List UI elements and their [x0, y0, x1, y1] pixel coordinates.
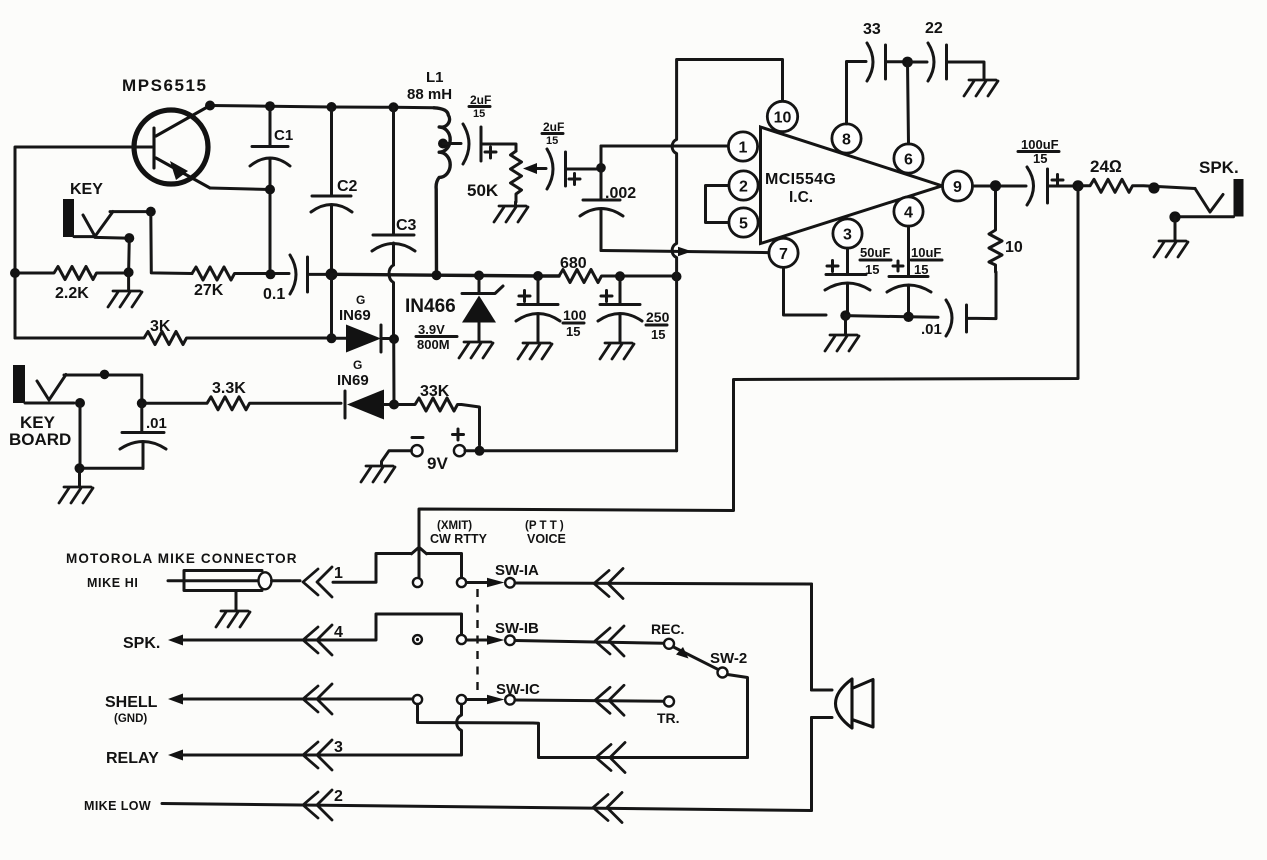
svg-text:250: 250	[646, 309, 670, 325]
capacitor 22	[908, 20, 984, 81]
svg-text:VOICE: VOICE	[527, 532, 566, 546]
battery 9V	[382, 429, 475, 473]
node rail L1	[432, 270, 442, 280]
svg-text:15: 15	[1033, 151, 1047, 166]
svg-text:15: 15	[473, 108, 485, 120]
svg-text:9: 9	[953, 179, 962, 196]
chevron SW-1B	[595, 626, 624, 656]
wire relay row	[181, 704, 462, 755]
svg-text:MIKE LOW: MIKE LOW	[84, 799, 151, 813]
capacitor .01	[921, 272, 996, 338]
op-amp U1 MC1554G triangle	[761, 127, 943, 244]
pin 8	[832, 124, 861, 153]
node rail C2	[326, 268, 338, 280]
svg-text:4: 4	[334, 624, 343, 641]
wire SW-1B to REC	[515, 641, 664, 644]
wire pin8 up	[847, 62, 867, 124]
SW-2 wiper arm	[674, 647, 719, 670]
loudspeaker	[812, 679, 874, 728]
resistor 10	[989, 186, 1023, 272]
ground 100uF	[518, 343, 552, 359]
svg-text:MOTOROLA MIKE CONNECTOR: MOTOROLA MIKE CONNECTOR	[66, 551, 297, 566]
wire C1 to rail	[269, 190, 272, 275]
wire key tip down to rail	[151, 212, 192, 274]
transistor Q1 MPS6515	[134, 106, 210, 189]
arrow SW-1B	[467, 635, 505, 645]
svg-text:15: 15	[651, 327, 665, 342]
chevron SW-1A	[594, 569, 623, 599]
wire gnd rail	[846, 316, 939, 318]
capacitor .002	[580, 168, 636, 251]
svg-text:2uF: 2uF	[543, 120, 564, 134]
pin 10	[767, 101, 797, 131]
wire base to left vertical	[15, 147, 152, 338]
svg-text:3.3K: 3.3K	[212, 380, 246, 397]
wire SW-1C to TR	[515, 700, 664, 701]
svg-text:2uF: 2uF	[470, 93, 491, 107]
wire pin2-pin5 strap	[706, 186, 730, 223]
wire pin7 down	[784, 268, 827, 316]
svg-text:(XMIT): (XMIT)	[437, 520, 472, 532]
svg-text:22: 22	[925, 20, 943, 37]
pin 4	[894, 197, 923, 226]
resistor 680	[559, 255, 677, 283]
node emitter-C1	[265, 185, 275, 195]
svg-text:0.1: 0.1	[263, 286, 285, 303]
pin 5	[729, 208, 758, 237]
svg-text:5: 5	[739, 216, 748, 233]
ground battery	[361, 466, 395, 482]
svg-text:50K: 50K	[467, 181, 499, 200]
svg-text:15: 15	[865, 262, 879, 277]
wire supply vertical with hops	[672, 60, 782, 451]
potentiometer 50K	[467, 151, 546, 202]
svg-text:SW-IC: SW-IC	[496, 681, 540, 698]
wire mike hi to switch	[333, 554, 411, 583]
contact SW-1C	[505, 695, 515, 705]
arrow shell	[168, 694, 183, 705]
pin 7	[769, 238, 798, 267]
chevron spk left	[303, 625, 332, 655]
wire shell contact jog	[418, 704, 748, 757]
capacitor 33	[863, 21, 903, 81]
svg-text:SPK.: SPK.	[123, 635, 160, 652]
pin 1	[728, 132, 757, 161]
wire tap to cap	[443, 142, 461, 145]
svg-text:2: 2	[334, 788, 343, 805]
svg-text:L1: L1	[426, 69, 444, 86]
contact SW-2	[718, 668, 728, 678]
resistor 3K	[15, 318, 332, 345]
pin 3	[833, 219, 862, 248]
contact voice B	[457, 635, 466, 644]
node battery plus	[475, 446, 485, 456]
svg-text:33: 33	[863, 21, 881, 38]
node rail zener	[474, 271, 484, 281]
svg-text:4: 4	[904, 205, 913, 222]
zener diode 1N466	[405, 276, 503, 353]
node 3K C2	[327, 333, 337, 343]
node top C1	[265, 101, 275, 111]
capacitor 100uF/15	[1018, 137, 1078, 205]
svg-text:SW-IB: SW-IB	[495, 620, 539, 637]
node collector	[205, 101, 215, 111]
svg-text:9V: 9V	[427, 454, 448, 473]
svg-text:88 mH: 88 mH	[407, 86, 452, 103]
chevron relay right	[596, 743, 625, 773]
wire rail mid	[332, 274, 560, 276]
wire C3 down to diode2 row	[392, 339, 395, 405]
keyboard jack	[9, 365, 142, 449]
svg-text:MIKE HI: MIKE HI	[87, 576, 138, 590]
svg-text:SW-2: SW-2	[710, 650, 747, 667]
wire C3 hop over rail	[389, 265, 394, 338]
capacitor C1	[250, 106, 293, 189]
node keyboard tip	[137, 398, 147, 408]
svg-text:G: G	[353, 358, 362, 372]
resistor 27K	[192, 267, 289, 299]
svg-text:CW RTTY: CW RTTY	[430, 532, 488, 546]
switch SW-2 REC contact	[664, 639, 674, 649]
svg-text:C2: C2	[337, 178, 358, 195]
ground zener	[459, 342, 493, 358]
wire collector top rail	[210, 106, 434, 108]
arrow SW-1A	[467, 578, 505, 588]
node rail-left vertical	[10, 268, 20, 278]
node top C3	[389, 102, 399, 112]
svg-text:10: 10	[1005, 239, 1023, 256]
node rail 100uF	[533, 271, 543, 281]
node L1 tap	[438, 139, 448, 149]
mike connector cylinder	[168, 571, 300, 611]
resistor 33K	[394, 383, 480, 445]
contact SW-1B	[505, 636, 515, 646]
node 33-22	[902, 57, 913, 68]
svg-text:.002: .002	[605, 185, 636, 202]
svg-text:27K: 27K	[194, 282, 224, 299]
svg-text:2.2K: 2.2K	[55, 285, 89, 302]
resistor 3.3K	[146, 380, 341, 410]
capacitor 2uF/15 second	[542, 120, 601, 189]
node 50uF gnd	[840, 310, 850, 320]
pin 6	[894, 144, 923, 173]
capacitor .01 keyboard	[80, 403, 167, 469]
node key sleeve	[124, 233, 134, 243]
svg-text:10: 10	[774, 110, 792, 127]
svg-text:680: 680	[560, 255, 587, 272]
node spk	[1148, 182, 1159, 193]
wire speaker vertical right	[810, 584, 813, 811]
ground mike connector	[216, 611, 250, 627]
svg-text:REC.: REC.	[651, 621, 684, 637]
ground spk	[1154, 217, 1188, 257]
capacitor 50uF/15	[825, 245, 891, 316]
node diode2 33K	[389, 400, 399, 410]
ground 50uF	[825, 316, 859, 351]
chevron SW-1C	[595, 685, 624, 715]
node 2.2K right	[124, 267, 134, 277]
svg-text:50uF: 50uF	[860, 245, 890, 260]
wire sleeve down	[127, 238, 131, 272]
inductor L1	[434, 108, 450, 275]
node key tip	[146, 207, 156, 217]
capacitor 100/15	[516, 276, 587, 342]
capacitor 10uF/15	[887, 226, 942, 317]
svg-text:2: 2	[739, 179, 748, 196]
node rail 250uF	[615, 271, 625, 281]
chevron shell left	[303, 684, 332, 714]
svg-text:15: 15	[546, 135, 558, 147]
svg-text:.01: .01	[921, 321, 942, 338]
chevron mike low left	[303, 790, 332, 820]
chevron relay left	[303, 740, 332, 770]
svg-text:15: 15	[566, 324, 580, 339]
capacitor C2	[311, 107, 358, 274]
svg-text:3K: 3K	[150, 318, 171, 335]
svg-text:IN69: IN69	[337, 372, 369, 389]
svg-text:I.C.: I.C.	[789, 189, 813, 206]
pin 9	[943, 171, 973, 201]
ground key	[108, 272, 142, 307]
svg-text:3.9V: 3.9V	[418, 322, 445, 337]
contact cw-rtty A	[413, 578, 422, 587]
node rail right end	[672, 272, 682, 282]
ground keyboard	[59, 468, 93, 503]
svg-text:KEY: KEY	[70, 181, 103, 198]
wire SW-1A to speaker line	[515, 583, 812, 584]
wire .002 to pin7	[601, 251, 769, 253]
svg-text:100uF: 100uF	[1021, 137, 1059, 152]
node out2	[1072, 180, 1083, 191]
svg-text:24Ω: 24Ω	[1090, 157, 1122, 176]
svg-text:1: 1	[739, 140, 748, 157]
node out	[990, 180, 1001, 191]
contact cw-rtty B	[413, 635, 422, 644]
contact voice C	[457, 695, 466, 704]
svg-text:G: G	[356, 293, 365, 307]
svg-text:1: 1	[334, 565, 343, 582]
svg-text:MCI554G: MCI554G	[765, 171, 836, 188]
chevron mike hi left	[303, 567, 332, 597]
svg-text:RELAY: RELAY	[106, 750, 159, 767]
ground 250uF	[600, 343, 634, 359]
svg-text:MPS6515: MPS6515	[122, 76, 206, 95]
svg-text:IN466: IN466	[405, 296, 456, 317]
svg-text:TR.: TR.	[657, 710, 680, 726]
wire emitter	[210, 188, 270, 190]
wire spk row	[181, 614, 462, 640]
ground 22	[964, 80, 998, 96]
pin 2	[729, 171, 758, 200]
svg-text:100: 100	[563, 307, 587, 323]
svg-text:(GND): (GND)	[114, 713, 147, 725]
speaker jack SPK	[1175, 158, 1244, 217]
svg-text:6: 6	[904, 152, 913, 169]
resistor 2.2K	[15, 267, 129, 303]
svg-text:33K: 33K	[420, 383, 450, 400]
svg-text:3: 3	[843, 227, 852, 244]
capacitor 250/15	[598, 276, 670, 342]
arrowhead on pin7 wire	[678, 247, 692, 256]
capacitor C3	[372, 107, 417, 265]
arrow SW-1C	[467, 695, 505, 705]
node keyboard sleeve	[75, 398, 85, 408]
node diode1 C3	[389, 334, 399, 344]
svg-text:3: 3	[334, 739, 343, 756]
resistor 24ohm	[1078, 157, 1195, 192]
wire node to pin6	[908, 62, 909, 144]
wire pin1 input	[601, 145, 729, 148]
node top C2	[327, 102, 337, 112]
switch link dashed	[476, 589, 478, 692]
capacitor 2uF/15 first	[463, 93, 516, 164]
svg-text:8: 8	[842, 132, 851, 149]
wire mike low row	[162, 804, 812, 811]
svg-text:IN69: IN69	[339, 307, 371, 324]
diode 1N69 lower	[337, 358, 394, 420]
wire SW-2 down to relay row	[728, 675, 748, 758]
contact cw-rtty C	[413, 695, 422, 704]
wire pin9 out	[973, 185, 1027, 188]
node 10uF gnd	[903, 312, 913, 322]
wire feedback from output to switches	[419, 186, 1078, 547]
wire shell row	[181, 698, 413, 701]
svg-text:BOARD: BOARD	[9, 430, 71, 449]
svg-text:SW-IA: SW-IA	[495, 562, 539, 579]
capacitor 0.1 series	[263, 255, 332, 303]
svg-text:(P T T ): (P T T )	[525, 520, 564, 532]
wire C2 down to 3K row	[330, 274, 333, 338]
wire +9V long run	[480, 449, 677, 452]
svg-text:.01: .01	[146, 415, 167, 432]
node wiper-cap-.002	[596, 163, 606, 173]
contact SW-1A	[505, 578, 515, 588]
node keyboard top	[100, 370, 110, 380]
arrow relay	[168, 750, 183, 761]
arrow spk	[168, 635, 183, 646]
contact TR	[664, 697, 674, 707]
svg-text:7: 7	[779, 246, 788, 263]
node spk gnd	[1169, 211, 1180, 222]
node rail C1	[266, 269, 276, 279]
ground 50K	[494, 202, 528, 222]
svg-text:C1: C1	[274, 127, 293, 144]
svg-text:SPK.: SPK.	[1199, 158, 1239, 177]
svg-text:SHELL: SHELL	[105, 694, 158, 711]
key jack KEY	[63, 181, 146, 238]
node keyboard gnd	[75, 463, 85, 473]
svg-text:15: 15	[914, 262, 928, 277]
wire node up to pin1 line	[600, 146, 603, 168]
diode 1N69 upper	[332, 293, 395, 353]
svg-text:10uF: 10uF	[911, 245, 941, 260]
chevron mike low right	[593, 793, 622, 823]
contact voice A	[457, 578, 466, 587]
svg-text:C3: C3	[396, 217, 417, 234]
svg-text:800M: 800M	[417, 337, 450, 352]
switch CW RTTY pole	[412, 547, 462, 577]
